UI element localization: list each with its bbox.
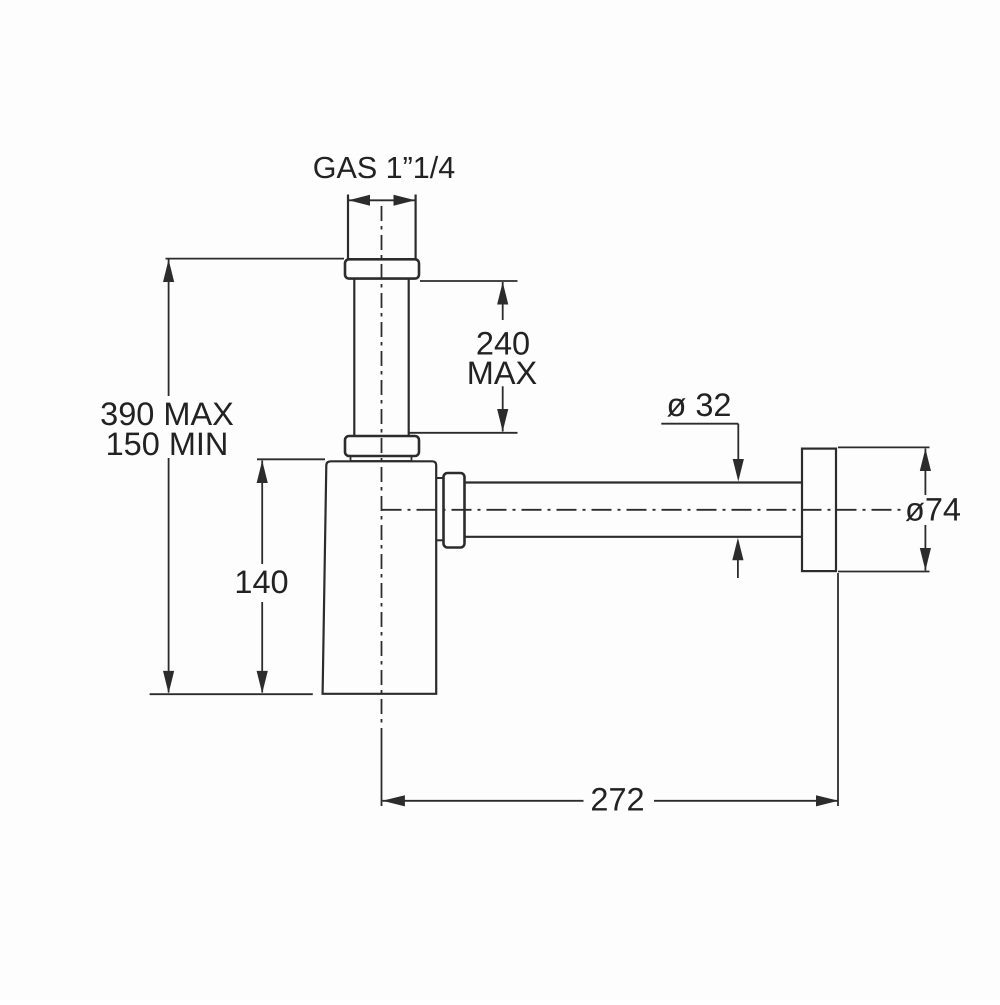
dim 390/150: top arrowhead: [163, 260, 174, 283]
svg-text:272: 272: [590, 782, 644, 818]
dim 390/150: dimension line upper segment: [168, 260, 170, 397]
GAS dimension right arrowhead: [394, 195, 416, 206]
dim 390/150: bottom arrowhead: [163, 671, 174, 694]
dim 272: right arrowhead: [816, 795, 839, 806]
inlet pipe upper-left wall: [347, 195, 349, 260]
dim 140: top extension line: [257, 458, 325, 460]
lower flange nut: [345, 436, 419, 456]
outlet stub top line: [436, 477, 443, 479]
wall flange: [802, 449, 836, 571]
dim 140: dimension line lower segment: [261, 602, 263, 693]
dim ø32: up arrowhead: [732, 538, 743, 561]
dim 140: dimension line upper segment: [261, 461, 263, 565]
dim ø74: dimension line lower segment: [924, 525, 926, 571]
centerline extension to 272 dimension: [381, 728, 383, 806]
dim 272: right extension line: [837, 573, 839, 806]
svg-text:GAS 1”1/4: GAS 1”1/4: [313, 151, 455, 185]
dim ø74: label: [906, 495, 962, 525]
dim ø32: leader vertical line: [737, 424, 739, 460]
svg-text:MAX: MAX: [467, 355, 537, 391]
inlet pipe lower-right wall: [408, 279, 410, 436]
washer under lower flange: [351, 456, 412, 461]
dim 240: bottom arrowhead: [497, 409, 508, 432]
dim 240: top extension line: [420, 280, 518, 282]
svg-text:150 MIN: 150 MIN: [106, 426, 229, 462]
dim ø32: down arrowhead: [733, 459, 744, 482]
upper flange nut: [345, 259, 419, 278]
trap body: [323, 461, 437, 694]
svg-text:140: 140: [234, 564, 288, 600]
dim 240: dimension line lower segment: [502, 386, 504, 431]
dim 240: bottom extension line: [410, 432, 518, 434]
horizontal outlet pipe top wall: [465, 481, 803, 483]
dim ø74: top extension line: [838, 446, 930, 448]
dim ø74: bottom arrowhead: [920, 548, 931, 571]
dim 140: bottom arrowhead: [257, 671, 268, 694]
dim ø74: bottom extension line: [838, 571, 930, 573]
dim 140: top arrowhead: [257, 461, 268, 484]
vertical centerline of trap: [381, 206, 383, 726]
dim ø74: dimension line upper segment: [924, 449, 926, 496]
dim 272: left arrowhead: [382, 795, 405, 806]
dim 390/150: dimension line lower segment: [168, 458, 170, 693]
svg-text:ø74: ø74: [905, 492, 961, 528]
horizontal outlet pipe bottom wall: [465, 536, 803, 538]
svg-text:ø 32: ø 32: [666, 387, 731, 423]
horizontal centerline: [382, 509, 904, 511]
dim 272: dimension line left segment: [382, 800, 583, 802]
dim 390/150: top extension line: [166, 258, 345, 260]
outlet stub bottom line: [436, 539, 443, 541]
inlet pipe lower-left wall: [353, 279, 355, 436]
GAS dimension line: [349, 199, 415, 201]
dim 240: top arrowhead: [497, 282, 508, 305]
inlet pipe upper-right wall: [415, 195, 417, 260]
dim 240: dimension line upper segment: [502, 282, 504, 320]
dim ø32: lower leader line: [737, 560, 739, 578]
baseline under body and dimensions: [150, 693, 313, 695]
dim 272: dimension line right segment: [654, 800, 839, 802]
outlet nut: [444, 473, 465, 548]
GAS dimension left arrowhead: [349, 195, 371, 206]
dim ø32: leader horizontal line: [661, 423, 738, 425]
dim ø74: top arrowhead: [920, 449, 931, 472]
